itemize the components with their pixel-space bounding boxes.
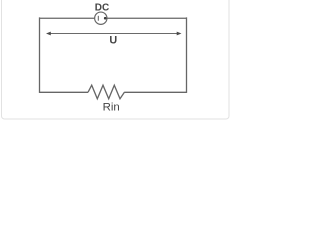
voltage arrow U [46,32,182,36]
svg-text:U: U [109,35,117,47]
wire top-left segment [40,17,95,19]
wire top-right segment [107,17,186,19]
wire bottom-right segment [124,91,186,93]
wire bottom-left segment [40,91,89,93]
svg-text:Rin: Rin [103,102,120,114]
wire left vertical [39,17,41,93]
wire right vertical [186,17,188,93]
resistor Rin [88,85,124,99]
svg-text:DC: DC [95,3,109,14]
DC source V1 [95,12,107,24]
